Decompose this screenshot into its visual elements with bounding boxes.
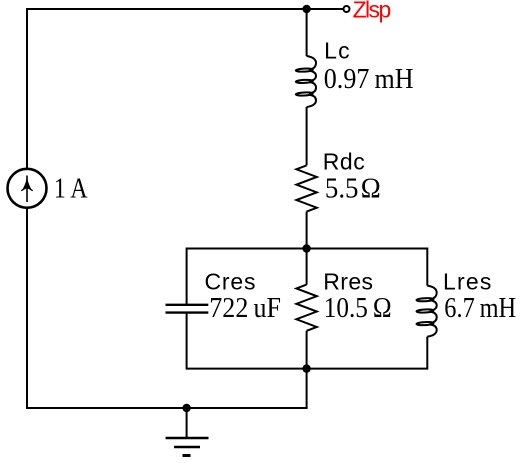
svg-text:5.5 Ω: 5.5 Ω xyxy=(325,173,381,204)
node junction box bottom xyxy=(302,364,310,372)
wire box right edge upper xyxy=(426,248,428,286)
current source I1 circle xyxy=(8,169,47,208)
capacitor Cres xyxy=(166,305,209,313)
wire box left edge upper xyxy=(186,248,188,305)
wire middle branch upper xyxy=(306,249,308,285)
resistor Rres xyxy=(296,285,316,331)
wire main branch upper xyxy=(306,9,308,56)
wire left vertical lower xyxy=(26,208,28,409)
svg-text:Rres: Rres xyxy=(323,268,373,294)
node junction ground xyxy=(182,404,190,412)
svg-text:10.5 Ω: 10.5 Ω xyxy=(324,292,392,324)
wire box right edge lower xyxy=(426,337,428,370)
ground xyxy=(166,408,209,456)
inductor Lres xyxy=(416,286,436,337)
svg-text:0.97 mH: 0.97 mH xyxy=(324,63,414,94)
svg-text:1 A: 1 A xyxy=(54,173,88,204)
svg-text:Zlsp: Zlsp xyxy=(353,0,391,23)
wire between Lc and Rdc xyxy=(306,107,308,165)
wire top rail xyxy=(27,8,343,10)
node junction box top xyxy=(302,244,310,252)
current source arrow xyxy=(21,176,32,203)
wire box bottom to ground rail xyxy=(306,369,308,408)
svg-text:Rdc: Rdc xyxy=(323,149,366,175)
wire bottom rail xyxy=(27,407,308,409)
wire box top rail xyxy=(187,248,428,250)
wire left vertical upper xyxy=(26,8,28,169)
svg-text:722 uF: 722 uF xyxy=(209,292,281,323)
terminal Zlsp open circle xyxy=(344,6,350,12)
wire middle branch lower xyxy=(306,331,308,369)
node junction top xyxy=(302,5,310,13)
wire Rdc to box xyxy=(306,212,308,249)
wire box bottom rail xyxy=(187,368,428,370)
inductor Lc xyxy=(296,56,316,107)
wire box left edge lower xyxy=(186,313,188,370)
resistor Rdc xyxy=(296,165,316,211)
svg-text:6.7 mH: 6.7 mH xyxy=(444,292,516,323)
svg-text:Cres: Cres xyxy=(205,268,257,294)
svg-text:Lres: Lres xyxy=(443,268,493,294)
svg-text:Lc: Lc xyxy=(324,38,351,64)
